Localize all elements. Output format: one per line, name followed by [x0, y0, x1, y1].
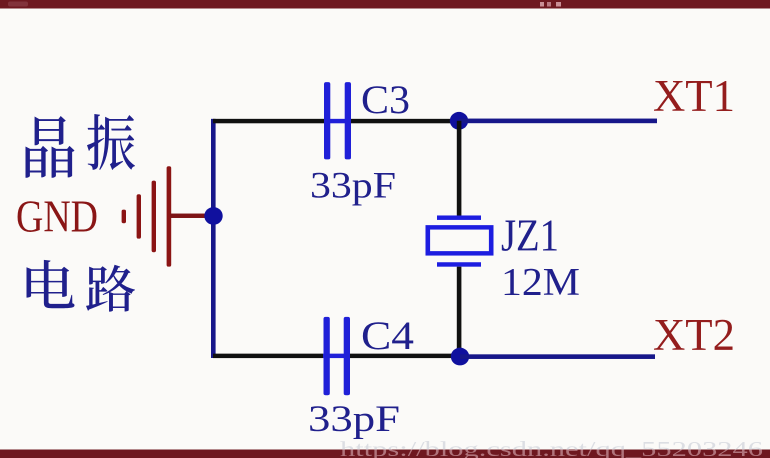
label 33pF (C3 value) [310, 166, 396, 206]
label C3 [361, 77, 410, 122]
label JZ1 [501, 210, 559, 260]
bottom banner bar with light watermark overlay [0, 437, 770, 458]
label 晶振 (caption char 振) [87, 114, 135, 170]
label 12M [501, 259, 580, 303]
svg-text:XT2: XT2 [653, 309, 735, 359]
label XT2 [653, 309, 735, 359]
wire top horizontal left segment (black) [213, 119, 324, 123]
wire stub between C3 plates (blue) [324, 119, 351, 123]
svg-text:12M: 12M [501, 259, 580, 303]
wire left vertical [211, 119, 216, 358]
net label GND [16, 191, 98, 241]
ground symbol (4 bars) [122, 166, 172, 266]
label 晶振 (caption char 晶) [25, 116, 74, 178]
crystal JZ1 symbol [428, 215, 491, 266]
wire ground to left node (red) [170, 214, 207, 218]
svg-text:33pF: 33pF [308, 399, 400, 439]
capacitor C3 plates [324, 82, 351, 159]
wire bottom horizontal right segment (black) [350, 354, 460, 358]
wire crystal top (black vertical) [457, 121, 462, 216]
top banner bar [0, 0, 770, 9]
label XT1 [653, 71, 735, 121]
label 电路 (caption char 电) [26, 260, 74, 308]
label C4 [361, 312, 414, 357]
node junction XT2 [451, 348, 469, 366]
wire crystal bottom (black vertical) [457, 267, 462, 357]
wire bottom horizontal left segment (black) [213, 354, 323, 358]
svg-text:GND: GND [16, 191, 98, 241]
node junction left (GND tap) [204, 207, 222, 225]
svg-text:C3: C3 [361, 77, 410, 122]
svg-text:33pF: 33pF [310, 166, 396, 206]
capacitor C4 plates [324, 317, 351, 395]
wire node to XT2 (navy) [460, 354, 655, 359]
node junction XT1 [450, 112, 468, 130]
label 33pF (C4 value) [308, 399, 400, 439]
wire node to XT1 (navy) [459, 119, 657, 124]
label 电路 (caption char 路) [86, 265, 135, 312]
svg-text:C4: C4 [361, 312, 414, 357]
wire top horizontal right segment (black) [351, 119, 459, 123]
watermark text [340, 437, 763, 458]
svg-text:XT1: XT1 [653, 71, 735, 121]
svg-text:JZ1: JZ1 [501, 210, 559, 260]
wire stub between C4 plates (blue) [323, 354, 350, 358]
